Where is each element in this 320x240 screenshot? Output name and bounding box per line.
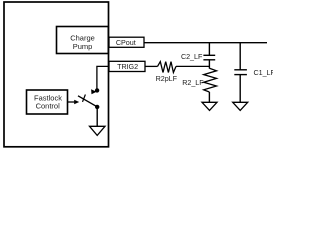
switch S1 bottom contact xyxy=(95,105,99,109)
svg-text:R2_LF: R2_LF xyxy=(182,78,204,87)
switch S1 top contact xyxy=(95,88,99,92)
wire CPout to loop filter (top rail) xyxy=(144,42,267,44)
chip outline (IC boundary) xyxy=(4,2,109,147)
capacitor C2_LF xyxy=(203,54,215,56)
ground (switch branch) xyxy=(90,126,106,135)
ground (C2/R2 branch) xyxy=(202,102,217,110)
svg-text:Pump: Pump xyxy=(73,42,93,51)
wire R2pLF to node A xyxy=(176,65,209,67)
control arrow from fastlock to switch xyxy=(68,101,76,103)
wire switch to ground xyxy=(96,107,98,126)
pin box TRIG2 xyxy=(109,61,145,71)
svg-text:CPout: CPout xyxy=(116,38,136,47)
wire TRIG2 internal to switch xyxy=(97,66,109,89)
resistor R2_LF xyxy=(204,68,217,92)
svg-text:C1_LF: C1_LF xyxy=(254,68,274,77)
pin box CPout xyxy=(109,37,144,47)
capacitor C1_LF xyxy=(234,69,247,71)
svg-text:R2pLF: R2pLF xyxy=(156,74,178,83)
wire top rail to C1_LF xyxy=(239,43,241,70)
charge pump block U1 xyxy=(57,27,109,54)
fastlock control block xyxy=(27,90,68,114)
svg-text:Control: Control xyxy=(36,101,61,110)
wire TRIG2 to R2pLF xyxy=(145,65,158,67)
wire R2_LF to ground xyxy=(208,92,210,102)
wire C1_LF to ground xyxy=(239,75,241,103)
wire C2_LF to node A xyxy=(208,60,210,69)
svg-text:TRIG2: TRIG2 xyxy=(117,62,138,71)
ground (C1 branch) xyxy=(233,102,248,110)
svg-text:C2_LF: C2_LF xyxy=(181,52,203,61)
resistor R2pLF xyxy=(158,62,177,73)
switch blade arrowhead xyxy=(91,89,97,94)
wire top rail to C2_LF xyxy=(208,43,210,56)
switch blade xyxy=(78,96,97,107)
switch actuator tick xyxy=(83,95,86,102)
